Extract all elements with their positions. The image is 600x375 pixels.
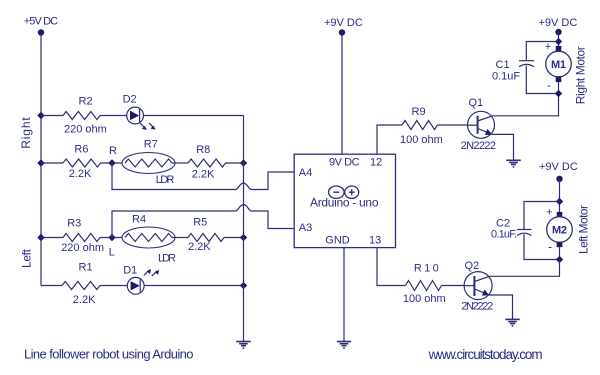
svg-text:A3: A3 bbox=[299, 222, 312, 234]
svg-text:Right: Right bbox=[19, 117, 33, 149]
wire right sensor rail bbox=[243, 116, 245, 342]
+5V DC terminal dot bbox=[38, 29, 44, 35]
svg-text:A4: A4 bbox=[299, 167, 312, 179]
LDR R4 bbox=[122, 214, 176, 265]
junction rail/R6 bbox=[37, 159, 44, 166]
ground (sensor rail) bbox=[236, 342, 251, 349]
svg-text:+9V DC: +9V DC bbox=[324, 17, 363, 29]
transistor Q1 bbox=[461, 97, 496, 152]
svg-text:C1: C1 bbox=[496, 59, 510, 71]
wire R6 to LDR bbox=[101, 162, 123, 164]
LED D1 bbox=[123, 265, 159, 295]
svg-text:LDR: LDR bbox=[156, 174, 175, 186]
resistor R3 bbox=[63, 234, 100, 242]
junction rail/R3 bbox=[37, 234, 44, 241]
+9V DC terminal dot (left motor) bbox=[556, 176, 562, 182]
wire R8 to right rail bbox=[226, 162, 244, 164]
svg-text:220 ohm: 220 ohm bbox=[64, 124, 107, 136]
svg-text:R2: R2 bbox=[79, 96, 93, 108]
svg-text:2.2K: 2.2K bbox=[188, 241, 211, 253]
resistor R5 bbox=[188, 234, 224, 242]
ground (Q1) bbox=[506, 160, 521, 167]
svg-text:2.2K: 2.2K bbox=[192, 169, 215, 181]
svg-text:2.2K: 2.2K bbox=[73, 294, 96, 306]
junction M2/C2 top bbox=[556, 198, 563, 205]
wire R5 to right rail bbox=[224, 237, 244, 239]
transistor Q2 bbox=[461, 260, 493, 313]
resistor R9 bbox=[402, 121, 438, 130]
svg-text:D2: D2 bbox=[123, 94, 137, 106]
junction rail/R8 bbox=[240, 159, 247, 166]
wire row4 left lead bbox=[41, 285, 62, 287]
wire Arduino GND to ground bbox=[343, 248, 345, 342]
svg-text:Line follower robot using Ardu: Line follower robot using Arduino bbox=[24, 347, 194, 362]
node R junction bbox=[108, 159, 115, 166]
capacitor C1 bbox=[492, 42, 559, 94]
wire D2 to right rail bbox=[144, 115, 244, 117]
motor M1 bbox=[545, 41, 572, 92]
wire node L to Arduino A3 (with hop) bbox=[112, 205, 294, 238]
svg-text:R5: R5 bbox=[193, 217, 207, 229]
svg-text:2.2K: 2.2K bbox=[69, 168, 92, 180]
svg-text:220 ohm: 220 ohm bbox=[61, 242, 104, 254]
wire R1 to D1 bbox=[100, 285, 127, 287]
wire LDR to R5 bbox=[172, 237, 188, 239]
junction rail/D1 bbox=[240, 282, 247, 289]
Arduino Uno box U1 bbox=[294, 154, 395, 247]
wire LDR to R8 bbox=[172, 162, 188, 164]
wire +9V to M2 bbox=[559, 179, 561, 212]
svg-text:100 ohm: 100 ohm bbox=[403, 293, 446, 305]
svg-text:Q2: Q2 bbox=[465, 260, 480, 272]
node L junction bbox=[108, 234, 115, 241]
wire +9V to M1 bbox=[558, 32, 560, 48]
junction rail/R2 bbox=[37, 112, 44, 119]
svg-text:Q1: Q1 bbox=[469, 97, 484, 109]
svg-text:Right Motor: Right Motor bbox=[574, 46, 588, 104]
wire pin 13 to R10 bbox=[377, 248, 406, 286]
svg-text:R3: R3 bbox=[67, 218, 81, 230]
svg-text:0.1uF: 0.1uF bbox=[492, 71, 520, 83]
svg-text:R6: R6 bbox=[74, 144, 88, 156]
svg-text:M2: M2 bbox=[552, 225, 567, 237]
svg-text:M1: M1 bbox=[551, 59, 566, 71]
svg-text:2N2222: 2N2222 bbox=[461, 301, 493, 313]
resistor R10 bbox=[406, 281, 442, 291]
svg-text:12: 12 bbox=[370, 157, 382, 169]
wire Q2 collector to M2 bbox=[490, 260, 560, 277]
wire row1 left lead bbox=[41, 115, 63, 117]
svg-text:Left Motor: Left Motor bbox=[577, 205, 591, 254]
wire row2 left lead bbox=[41, 162, 63, 164]
svg-text:+9V DC: +9V DC bbox=[539, 161, 578, 173]
wire R9 to Q1 base bbox=[438, 124, 468, 126]
wire R3 to LDR bbox=[100, 237, 122, 239]
svg-text:+5V DC: +5V DC bbox=[24, 16, 58, 28]
ground (Arduino) bbox=[337, 342, 352, 349]
svg-text:+9V DC: +9V DC bbox=[539, 17, 578, 29]
motor M2 bbox=[546, 207, 572, 257]
wire R2 to D2 bbox=[100, 115, 127, 117]
junction M1/C1 bottom bbox=[555, 90, 562, 97]
resistor R8 bbox=[188, 159, 226, 167]
wire node R to Arduino A4 (with hop) bbox=[112, 163, 294, 190]
svg-text:R: R bbox=[109, 145, 117, 157]
svg-text:R9: R9 bbox=[412, 106, 426, 118]
wire Q2 emitter to ground bbox=[489, 295, 513, 319]
Arduino logo bbox=[329, 186, 359, 198]
svg-text:+: + bbox=[546, 207, 552, 219]
ground (Q2) bbox=[505, 319, 520, 326]
LDR R7 bbox=[122, 139, 175, 187]
wire Q1 emitter to ground bbox=[492, 134, 514, 160]
+9V DC terminal dot (Arduino) bbox=[339, 29, 345, 35]
LED D2 bbox=[123, 94, 156, 131]
wire +9V to Arduino 9VDC pin bbox=[341, 33, 343, 155]
svg-text:0.1uF.: 0.1uF. bbox=[491, 229, 517, 241]
svg-text:2N2222: 2N2222 bbox=[461, 140, 496, 152]
wire D1 to right rail bbox=[144, 285, 243, 287]
svg-text:+: + bbox=[545, 41, 551, 53]
resistor R2 bbox=[63, 112, 100, 120]
capacitor C2 bbox=[491, 202, 560, 260]
svg-text:L: L bbox=[109, 247, 115, 259]
+9V DC terminal dot (right motor) bbox=[555, 29, 561, 35]
svg-text:9V DC: 9V DC bbox=[329, 157, 360, 169]
wire Q1 collector to M1 bbox=[492, 94, 558, 116]
wire pin 12 to R9 bbox=[377, 125, 402, 154]
svg-text:R1: R1 bbox=[79, 262, 93, 274]
svg-text:www.circuitstoday.com: www.circuitstoday.com bbox=[428, 347, 543, 362]
svg-text:Arduino - uno: Arduino - uno bbox=[310, 196, 379, 210]
svg-text:R8: R8 bbox=[196, 144, 210, 156]
svg-text:R10: R10 bbox=[414, 263, 439, 275]
svg-text:GND: GND bbox=[325, 235, 350, 247]
svg-text:R4: R4 bbox=[132, 214, 146, 226]
svg-text:-: - bbox=[547, 78, 551, 92]
junction M1/C1 top bbox=[555, 38, 562, 45]
junction rail/R5 bbox=[240, 234, 247, 241]
svg-text:-: - bbox=[548, 240, 552, 254]
wire R10 to Q2 base bbox=[442, 285, 465, 287]
svg-text:R7: R7 bbox=[144, 139, 158, 151]
resistor R6 bbox=[63, 159, 101, 167]
svg-text:100 ohm: 100 ohm bbox=[400, 134, 443, 146]
resistor R1 bbox=[62, 282, 100, 290]
wire row3 left lead bbox=[41, 237, 63, 239]
svg-text:Left: Left bbox=[19, 248, 33, 268]
wire: +5V left rail bbox=[40, 33, 42, 286]
svg-text:13: 13 bbox=[369, 235, 381, 247]
junction M2/C2 bottom bbox=[556, 256, 563, 263]
svg-text:LDR: LDR bbox=[158, 253, 176, 265]
svg-text:D1: D1 bbox=[123, 265, 137, 277]
